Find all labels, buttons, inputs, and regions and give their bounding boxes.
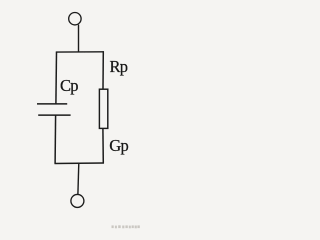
wire right branch upper bbox=[102, 51, 104, 89]
capacitor Cp top plate bbox=[37, 103, 67, 105]
label Gp bbox=[109, 136, 128, 156]
watermark bottom right bbox=[106, 222, 146, 232]
capacitor Cp bottom plate bbox=[38, 114, 70, 116]
label Rp bbox=[110, 57, 128, 77]
wire right branch lower bbox=[102, 128, 104, 163]
wire bottom feed bbox=[77, 163, 80, 194]
terminal circle top bbox=[69, 13, 81, 25]
resistor Rp body bbox=[99, 89, 107, 128]
wire bottom horizontal bbox=[55, 162, 104, 165]
wire left branch lower bbox=[54, 115, 57, 164]
wire top feed bbox=[78, 25, 80, 53]
terminal circle bottom bbox=[71, 194, 84, 207]
wire left branch upper bbox=[55, 52, 58, 104]
wire top horizontal bbox=[56, 51, 104, 53]
label Cp bbox=[60, 76, 78, 96]
